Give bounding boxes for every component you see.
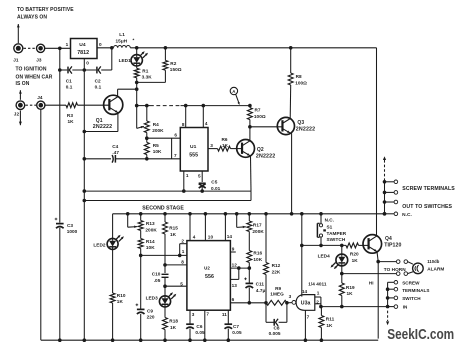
wire U3a inputs to switch-in run xyxy=(321,306,388,308)
svg-text:ALWAYS ON: ALWAYS ON xyxy=(17,15,47,21)
svg-text:100Ω: 100Ω xyxy=(295,81,307,86)
resistor R5 10K xyxy=(144,142,149,154)
wire emitter loop upper xyxy=(84,190,251,192)
wire R1 to nodes xyxy=(136,78,138,106)
svg-text:R3: R3 xyxy=(67,113,73,118)
jack J3 xyxy=(37,44,45,52)
svg-text:6: 6 xyxy=(232,297,235,302)
svg-text:LED1: LED1 xyxy=(119,58,132,63)
svg-text:C5: C5 xyxy=(211,179,217,184)
capacitor C11 4.7 xyxy=(248,268,250,283)
wire U3a input bracket pins 1 2 xyxy=(315,296,321,298)
svg-text:7: 7 xyxy=(206,312,209,317)
svg-text:Q4: Q4 xyxy=(385,236,392,242)
svg-text:C11: C11 xyxy=(256,282,265,287)
svg-text:C8: C8 xyxy=(274,326,280,331)
svg-text:100Ω: 100Ω xyxy=(254,114,266,119)
svg-text:1: 1 xyxy=(182,249,185,254)
svg-text:1: 1 xyxy=(317,291,320,296)
svg-text:J2: J2 xyxy=(14,111,20,116)
svg-text:0.1: 0.1 xyxy=(66,85,73,90)
svg-text:LED3: LED3 xyxy=(146,296,159,301)
resistor R3 1K xyxy=(66,103,78,108)
svg-text:1/4 4011: 1/4 4011 xyxy=(308,282,327,287)
transistor Q4 TIP120 xyxy=(363,235,382,254)
svg-text:1000: 1000 xyxy=(67,229,78,234)
svg-text:R14: R14 xyxy=(146,239,155,244)
wire Q3 emitter to stage rail xyxy=(290,132,291,134)
svg-text:6: 6 xyxy=(174,132,177,137)
transistor Q2 2N2222 xyxy=(237,140,255,158)
svg-text:R18: R18 xyxy=(169,319,178,324)
svg-text:R11: R11 xyxy=(326,316,335,321)
svg-text:2: 2 xyxy=(181,239,184,244)
svg-text:SWITCH: SWITCH xyxy=(402,296,421,301)
wire C10 to LED3 / pin5 xyxy=(164,277,166,296)
svg-text:SeekIC.com: SeekIC.com xyxy=(387,327,454,343)
wire U1 pin3 output xyxy=(208,148,218,150)
svg-text:1: 1 xyxy=(186,173,189,178)
wire U2 pin2 stub and bracket xyxy=(180,243,187,245)
screw terminal block lower xyxy=(387,282,389,306)
svg-text:1K: 1K xyxy=(68,119,75,124)
alarm 110db xyxy=(413,263,424,274)
wire C2 to output node xyxy=(111,48,113,70)
wire emitter loop right side xyxy=(250,191,252,200)
capacitor C3 1000 xyxy=(56,223,64,225)
svg-text:IN: IN xyxy=(403,305,408,310)
wire J1-J3 dashed link xyxy=(24,47,36,49)
wire Q1 collector jog xyxy=(117,89,119,96)
svg-text:R2: R2 xyxy=(170,61,176,66)
svg-text:U1: U1 xyxy=(190,144,197,150)
svg-text:R12: R12 xyxy=(272,263,281,268)
svg-text:14: 14 xyxy=(302,289,308,294)
svg-text:0: 0 xyxy=(86,61,89,66)
svg-text:7: 7 xyxy=(307,315,310,320)
wire U2 pin4 riser xyxy=(189,214,191,241)
svg-text:556: 556 xyxy=(205,274,214,280)
wire Q2 collector xyxy=(249,127,251,141)
wire U2 pin6 run xyxy=(230,302,266,304)
wire U1 pin4 riser xyxy=(202,106,204,128)
svg-text:R17: R17 xyxy=(253,222,262,227)
svg-text:3: 3 xyxy=(192,312,195,317)
svg-text:Q1: Q1 xyxy=(96,118,103,124)
wire Q2 emitter down xyxy=(250,156,253,191)
svg-text:C4: C4 xyxy=(112,144,118,149)
svg-text:8: 8 xyxy=(182,122,185,127)
LED3 xyxy=(159,296,170,307)
svg-text:1K: 1K xyxy=(170,232,177,237)
svg-text:10K: 10K xyxy=(146,245,155,250)
svg-text:S1: S1 xyxy=(327,224,333,229)
resistor R10 1K xyxy=(112,249,114,293)
wire U2 pin12 to R16 xyxy=(230,267,249,269)
svg-text:Q3: Q3 xyxy=(297,120,304,126)
inductor L1 15uH xyxy=(114,46,131,48)
svg-text:2N2222: 2N2222 xyxy=(296,126,315,132)
svg-text:4: 4 xyxy=(193,235,196,240)
svg-text:HI: HI xyxy=(369,280,374,285)
svg-text:C1: C1 xyxy=(66,79,72,84)
svg-text:220: 220 xyxy=(147,315,155,320)
svg-text:R10: R10 xyxy=(117,293,126,298)
svg-text:J4: J4 xyxy=(37,95,43,100)
wire U2 pin10 riser xyxy=(204,214,206,241)
svg-text:555: 555 xyxy=(189,153,198,159)
resistor R11 1K xyxy=(320,307,322,316)
svg-text:1K: 1K xyxy=(326,323,333,328)
screw terminal block upper xyxy=(384,182,386,214)
svg-text:R16: R16 xyxy=(253,251,262,256)
svg-text:10K: 10K xyxy=(253,257,262,262)
resistor R14 10K xyxy=(140,231,142,239)
svg-text:0.01: 0.01 xyxy=(211,186,221,191)
svg-text:3: 3 xyxy=(210,143,213,148)
voltage regulator U4 7812 xyxy=(71,39,98,59)
transistor Q1 2N2222 xyxy=(104,95,123,114)
wire U4 output xyxy=(97,47,114,49)
wire U1 pin1 riser xyxy=(183,171,185,191)
wire horn row lower xyxy=(342,273,397,275)
svg-text:N.C.: N.C. xyxy=(325,217,334,222)
battery arrow xyxy=(17,24,19,43)
wire U2 pin13 bracket xyxy=(230,278,238,280)
svg-text:OUT TO SWITCHES: OUT TO SWITCHES xyxy=(402,204,452,210)
dashed arrow down xyxy=(387,311,389,321)
svg-text:R4: R4 xyxy=(153,122,159,127)
svg-text:150Ω: 150Ω xyxy=(170,67,182,72)
jack J4 xyxy=(37,101,45,109)
wire C1/C2 ground run xyxy=(59,48,61,222)
resistor R9 1MEG xyxy=(266,300,287,305)
svg-text:13: 13 xyxy=(232,283,238,288)
svg-text:3: 3 xyxy=(289,294,292,299)
svg-text:R20: R20 xyxy=(350,252,359,257)
svg-text:C10: C10 xyxy=(152,272,161,277)
resistor R7 100ohm xyxy=(248,104,252,108)
svg-text:110db: 110db xyxy=(427,259,440,264)
wire LED4 to R19 xyxy=(341,266,343,283)
capacitor C10 .05 xyxy=(162,273,169,275)
svg-text:0: 0 xyxy=(99,42,102,47)
node A circle xyxy=(230,87,237,94)
svg-text:5: 5 xyxy=(180,281,183,286)
wire bottom ground rail xyxy=(41,339,378,341)
svg-text:TIP120: TIP120 xyxy=(384,243,401,249)
trimmer R4 200K with wiper arrow xyxy=(146,106,148,121)
svg-text:R1: R1 xyxy=(142,68,148,73)
svg-text:ON WHEN CAR: ON WHEN CAR xyxy=(16,74,53,80)
svg-text:.05: .05 xyxy=(154,278,161,283)
wire mid bus to U1 supply xyxy=(137,105,150,107)
ignition arrow up xyxy=(19,90,21,100)
resistor R1 3.3K xyxy=(136,66,138,68)
svg-text:22K: 22K xyxy=(272,270,281,275)
wire U2 pin11 / capacitor C7 0.05 xyxy=(227,310,229,324)
wire U3a pin14 riser xyxy=(301,214,303,297)
timer U2 556 xyxy=(187,241,231,311)
gate U3a 1/4 4011 xyxy=(296,295,315,311)
wire U3a pin7 down xyxy=(304,310,306,340)
svg-text:1K: 1K xyxy=(352,258,359,263)
svg-text:11: 11 xyxy=(222,312,227,317)
wire J2-J4 dashed link xyxy=(26,104,37,106)
wire Q4 collector from top rail xyxy=(376,48,378,237)
svg-text:C9: C9 xyxy=(147,308,153,313)
svg-text:4: 4 xyxy=(205,121,208,126)
svg-text:7: 7 xyxy=(174,153,177,158)
wire tamper node run xyxy=(302,244,346,246)
svg-text:LED2: LED2 xyxy=(93,243,106,248)
svg-text:R15: R15 xyxy=(169,226,178,231)
svg-text:4.7μ: 4.7μ xyxy=(256,288,266,293)
svg-text:C3: C3 xyxy=(67,223,73,228)
svg-text:R5: R5 xyxy=(153,143,159,148)
svg-text:1: 1 xyxy=(66,42,69,47)
svg-text:12: 12 xyxy=(232,263,238,268)
svg-text:N.C.: N.C. xyxy=(402,212,412,218)
svg-text:R6: R6 xyxy=(222,137,228,142)
wire pin6-pin7 link xyxy=(171,138,173,159)
svg-text:1K: 1K xyxy=(347,291,354,296)
wire R4-R5 junction to U1 pin6 xyxy=(146,133,148,143)
svg-text:J3: J3 xyxy=(36,58,42,63)
svg-text:TO HORN: TO HORN xyxy=(384,267,406,272)
svg-text:9: 9 xyxy=(232,247,235,252)
capacitor C8 0.005 bracket xyxy=(265,303,267,323)
svg-text:U3a: U3a xyxy=(301,301,311,307)
LED2 xyxy=(112,214,114,239)
wire Q2 collector to Q3 base xyxy=(250,126,282,128)
timer U1 555 xyxy=(180,128,208,172)
resistor R12 22K xyxy=(265,214,267,263)
trimmer R17 200K with wiper xyxy=(248,214,250,221)
svg-text:3.3K: 3.3K xyxy=(142,75,153,80)
svg-text:1K: 1K xyxy=(170,325,177,330)
wire emitter loop lower xyxy=(84,200,251,202)
resistor R15 1K xyxy=(164,214,166,222)
wire R15 to U2 pin8 node xyxy=(164,234,166,273)
wire R14 tap to U2 pin1 xyxy=(141,254,187,256)
svg-text:0.005: 0.005 xyxy=(269,331,281,336)
svg-text:0.1: 0.1 xyxy=(95,85,102,90)
wire J4 to R3 xyxy=(45,104,66,106)
capacitor C2 0.1 xyxy=(96,67,98,74)
trimmer R13 200K with wiper xyxy=(127,214,129,227)
svg-text:LED4: LED4 xyxy=(318,253,331,258)
svg-text:TAMPER: TAMPER xyxy=(327,231,347,236)
wire U4 ground pin bus xyxy=(83,59,85,341)
svg-text:0.05: 0.05 xyxy=(195,330,205,335)
wire R8 to Q3 collector xyxy=(289,85,292,119)
wire C4 run to U1 pin7 xyxy=(84,158,111,160)
jack J1 xyxy=(14,44,23,53)
svg-text:SCREW: SCREW xyxy=(402,281,420,286)
ignition arrow down xyxy=(19,111,21,126)
svg-text:10K: 10K xyxy=(153,149,162,154)
svg-text:U2: U2 xyxy=(204,266,210,271)
wire R2 bottom xyxy=(164,70,166,82)
svg-text:1K: 1K xyxy=(117,299,124,304)
svg-text:SECOND STAGE: SECOND STAGE xyxy=(142,205,184,211)
resistor R2 150ohm xyxy=(164,46,168,50)
svg-text:2N2222: 2N2222 xyxy=(256,154,275,160)
wire horn row upper xyxy=(378,261,396,263)
svg-text:7812: 7812 xyxy=(77,50,89,56)
svg-text:8: 8 xyxy=(181,260,184,265)
svg-text:TO BATTERY POSITIVE: TO BATTERY POSITIVE xyxy=(17,7,74,13)
svg-text:5: 5 xyxy=(198,174,201,179)
wire J3 to U4 input xyxy=(45,47,71,49)
svg-text:SWITCH: SWITCH xyxy=(327,237,346,242)
capacitor C4 .47 xyxy=(112,155,113,163)
svg-text:L1: L1 xyxy=(119,32,125,37)
svg-text:*: * xyxy=(133,38,135,43)
wire U3a output to R9 xyxy=(287,302,292,304)
transistor Q3 2N2222 xyxy=(277,117,294,134)
svg-text:10: 10 xyxy=(208,235,214,240)
svg-text:C6: C6 xyxy=(196,324,202,329)
resistor R19 1K xyxy=(339,283,344,296)
svg-text:C2: C2 xyxy=(95,79,101,84)
jack J2 xyxy=(16,101,25,110)
svg-text:200K: 200K xyxy=(252,229,264,234)
wire R14 down / capacitor C9 220 xyxy=(140,249,142,310)
svg-text:R9: R9 xyxy=(275,286,281,291)
resistor R16 10K xyxy=(248,232,250,251)
capacitor C1 0.1 xyxy=(67,67,69,74)
svg-text:TERMINALS: TERMINALS xyxy=(402,288,429,293)
svg-text:1MEG: 1MEG xyxy=(270,292,284,297)
svg-text:0.05: 0.05 xyxy=(232,330,242,335)
svg-text:200K: 200K xyxy=(145,227,157,232)
LED4 xyxy=(341,245,343,254)
resistor R20 1K xyxy=(346,243,359,248)
svg-text:14: 14 xyxy=(227,234,233,239)
wire R3 to Q1 base xyxy=(78,104,110,106)
resistor R8 100ohm xyxy=(289,46,293,50)
wire Q1 emitter return to ground bus xyxy=(117,113,119,132)
wire U2 pin3 / capacitor C6 0.05 xyxy=(189,310,191,324)
svg-text:SCREW TERMINALS: SCREW TERMINALS xyxy=(402,186,455,192)
svg-text:C7: C7 xyxy=(233,324,239,329)
wire top rail xyxy=(130,47,376,49)
wire U2 pin7 down xyxy=(204,310,206,340)
resistor R18 1K xyxy=(164,307,166,318)
wire second stage rail xyxy=(113,213,385,215)
capacitor C5 0.01 xyxy=(201,171,203,182)
svg-text:R13: R13 xyxy=(146,221,155,226)
wire J4 down to ground rail xyxy=(40,109,42,340)
svg-text:J1: J1 xyxy=(13,58,19,63)
svg-text:ALARM: ALARM xyxy=(427,267,444,272)
svg-text:U4: U4 xyxy=(79,42,86,48)
svg-text:2N2222: 2N2222 xyxy=(93,124,112,130)
svg-text:Q2: Q2 xyxy=(257,147,264,153)
svg-text:IS ON: IS ON xyxy=(16,81,30,87)
svg-text:R7: R7 xyxy=(255,108,261,113)
svg-text:2: 2 xyxy=(316,299,319,304)
svg-text:15μH: 15μH xyxy=(116,38,128,43)
resistor R6 1K xyxy=(218,146,231,151)
wire Q4 emitter down to ground xyxy=(377,252,378,262)
svg-text:.47: .47 xyxy=(112,150,119,155)
svg-text:R19: R19 xyxy=(346,285,355,290)
wire U2 pin14 riser xyxy=(224,214,226,241)
dashed arrow up xyxy=(384,161,386,181)
wire U1 pin8 riser xyxy=(185,106,187,128)
U2 pin9 stub xyxy=(230,251,235,253)
svg-text:200K: 200K xyxy=(152,128,164,133)
svg-text:1K: 1K xyxy=(222,143,229,148)
svg-text:TO IGNITION: TO IGNITION xyxy=(16,66,47,72)
svg-text:R8: R8 xyxy=(296,74,302,79)
LED1 xyxy=(135,46,139,50)
